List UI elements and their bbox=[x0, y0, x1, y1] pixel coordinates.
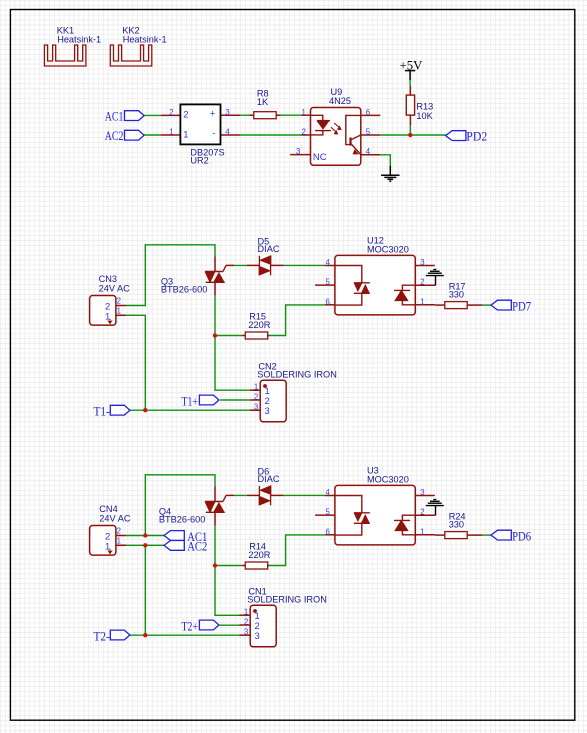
svg-text:-: - bbox=[212, 128, 215, 139]
svg-text:PD6: PD6 bbox=[512, 530, 531, 544]
svg-text:NC: NC bbox=[313, 152, 327, 163]
svg-text:1: 1 bbox=[420, 297, 424, 306]
svg-text:MOC3020: MOC3020 bbox=[367, 474, 409, 484]
svg-text:2: 2 bbox=[169, 108, 173, 117]
svg-text:1: 1 bbox=[183, 129, 188, 140]
svg-text:1: 1 bbox=[169, 128, 173, 137]
svg-text:1: 1 bbox=[117, 536, 121, 545]
svg-text:T1-: T1- bbox=[94, 405, 110, 419]
svg-text:330: 330 bbox=[449, 519, 464, 529]
svg-text:1: 1 bbox=[117, 306, 121, 315]
svg-text:AC2: AC2 bbox=[187, 540, 207, 554]
svg-text:2: 2 bbox=[244, 618, 248, 627]
svg-text:PD2: PD2 bbox=[466, 129, 487, 143]
svg-text:220R: 220R bbox=[248, 320, 270, 330]
svg-text:24V AC: 24V AC bbox=[99, 284, 131, 294]
svg-text:6: 6 bbox=[326, 527, 330, 536]
svg-text:BTB26-600: BTB26-600 bbox=[161, 284, 207, 294]
svg-text:6: 6 bbox=[366, 108, 370, 117]
svg-text:2: 2 bbox=[254, 392, 258, 401]
svg-text:3: 3 bbox=[265, 406, 270, 417]
svg-text:T2-: T2- bbox=[94, 630, 110, 644]
svg-text:BTB26-600: BTB26-600 bbox=[159, 514, 205, 524]
svg-text:3: 3 bbox=[225, 108, 229, 117]
svg-text:2: 2 bbox=[420, 278, 424, 287]
svg-text:24V AC: 24V AC bbox=[99, 514, 131, 524]
svg-text:2: 2 bbox=[420, 508, 424, 517]
svg-text:DIAC: DIAC bbox=[258, 474, 280, 484]
svg-text:3: 3 bbox=[244, 628, 248, 637]
svg-text:330: 330 bbox=[449, 289, 464, 299]
svg-text:5: 5 bbox=[326, 508, 331, 517]
svg-text:1K: 1K bbox=[257, 97, 269, 107]
svg-text:SOLDERING IRON: SOLDERING IRON bbox=[257, 369, 337, 379]
svg-text:6: 6 bbox=[326, 297, 330, 306]
svg-text:AC2: AC2 bbox=[105, 129, 124, 143]
svg-text:MOC3020: MOC3020 bbox=[367, 244, 409, 254]
svg-text:2: 2 bbox=[117, 527, 121, 536]
svg-text:PD7: PD7 bbox=[512, 300, 531, 314]
svg-text:AC1: AC1 bbox=[105, 110, 124, 124]
svg-text:4: 4 bbox=[326, 488, 331, 497]
svg-text:1: 1 bbox=[105, 311, 110, 322]
svg-text:+: + bbox=[210, 108, 216, 119]
svg-text:3: 3 bbox=[420, 488, 424, 497]
svg-text:2: 2 bbox=[183, 110, 188, 121]
svg-text:4N25: 4N25 bbox=[329, 96, 351, 106]
svg-text:2: 2 bbox=[302, 128, 306, 137]
svg-text:1: 1 bbox=[105, 541, 110, 552]
svg-text:4: 4 bbox=[326, 258, 331, 267]
svg-text:T2+: T2+ bbox=[182, 620, 198, 634]
svg-text:3: 3 bbox=[255, 631, 260, 642]
svg-text:4: 4 bbox=[366, 147, 371, 156]
svg-text:1: 1 bbox=[420, 527, 424, 536]
svg-text:10K: 10K bbox=[416, 111, 433, 121]
svg-text:4: 4 bbox=[225, 128, 230, 137]
svg-text:2: 2 bbox=[117, 297, 121, 306]
svg-text:SOLDERING IRON: SOLDERING IRON bbox=[247, 594, 327, 604]
svg-text:3: 3 bbox=[296, 147, 300, 156]
svg-text:5: 5 bbox=[326, 278, 331, 287]
svg-text:220R: 220R bbox=[248, 550, 270, 560]
svg-text:3: 3 bbox=[254, 403, 258, 412]
svg-text:1: 1 bbox=[302, 108, 306, 117]
svg-text:Heatsink-1: Heatsink-1 bbox=[123, 34, 167, 44]
svg-text:1: 1 bbox=[244, 608, 248, 617]
svg-text:3: 3 bbox=[420, 258, 424, 267]
svg-text:Heatsink-1: Heatsink-1 bbox=[57, 34, 101, 44]
svg-text:T1+: T1+ bbox=[182, 394, 198, 408]
svg-text:UR2: UR2 bbox=[190, 155, 208, 165]
svg-text:1: 1 bbox=[254, 383, 258, 392]
svg-text:DIAC: DIAC bbox=[258, 244, 280, 254]
svg-text:5: 5 bbox=[366, 128, 371, 137]
